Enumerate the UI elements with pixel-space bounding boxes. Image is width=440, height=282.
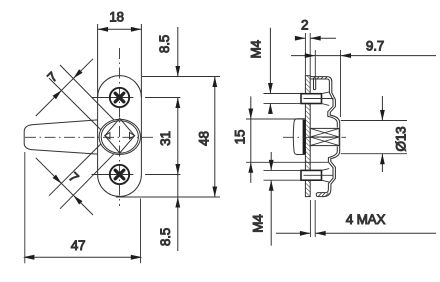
svg-text:15: 15 bbox=[233, 130, 248, 145]
svg-text:Ø13: Ø13 bbox=[394, 127, 409, 152]
svg-text:4 MAX: 4 MAX bbox=[346, 212, 386, 227]
svg-text:7: 7 bbox=[66, 169, 82, 185]
svg-text:2: 2 bbox=[301, 18, 308, 33]
svg-text:47: 47 bbox=[71, 238, 86, 253]
svg-text:8.5: 8.5 bbox=[157, 35, 172, 53]
svg-text:M4: M4 bbox=[251, 214, 266, 233]
svg-text:7: 7 bbox=[44, 69, 60, 85]
svg-text:18: 18 bbox=[109, 9, 124, 24]
svg-text:31: 31 bbox=[158, 131, 173, 146]
svg-text:48: 48 bbox=[197, 131, 212, 146]
svg-text:8.5: 8.5 bbox=[158, 228, 173, 246]
svg-text:M4: M4 bbox=[248, 39, 263, 58]
svg-text:9.7: 9.7 bbox=[366, 38, 384, 53]
